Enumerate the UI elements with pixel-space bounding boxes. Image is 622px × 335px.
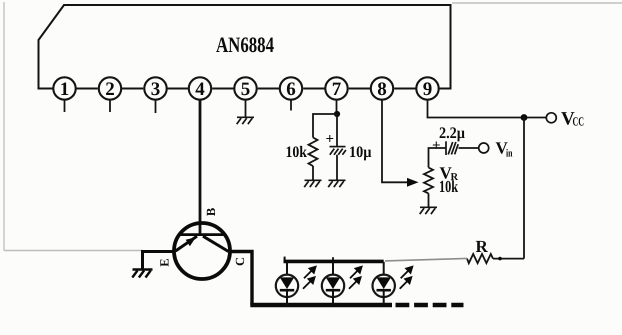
ground below VR: [420, 207, 437, 214]
ground below C1: [328, 180, 345, 187]
svg-text:7: 7: [332, 79, 342, 100]
capacitor C1 10u polarized plate: [330, 147, 346, 155]
VR wiper arrowhead: [407, 178, 419, 187]
faint scan artifact horizontal line left: [4, 250, 143, 252]
faint scan artifact vertical line left: [3, 2, 5, 251]
wire tick above rail LED2: [332, 257, 334, 261]
svg-text:CC: CC: [573, 115, 585, 129]
wire Vcc rail down right side: [523, 118, 525, 259]
svg-text:AN6884: AN6884: [216, 32, 274, 57]
svg-text:2.2µ: 2.2µ: [439, 125, 465, 142]
wire dashed continuation: [396, 303, 464, 308]
pin 6: [280, 77, 302, 110]
svg-text:6: 6: [286, 79, 296, 100]
svg-text:5: 5: [241, 79, 251, 100]
wire pin 9 to Vcc rail: [428, 100, 547, 118]
pin 5: [234, 77, 256, 116]
wire right rail to resistor R: [493, 258, 524, 260]
svg-text:10k: 10k: [439, 177, 458, 196]
node junction at pin 7: [334, 111, 340, 117]
wire VR to ground: [428, 193, 430, 206]
node small blob right of R: [498, 257, 502, 261]
wire base pin 4 to transistor: [199, 100, 202, 236]
arrows D2: [349, 267, 362, 289]
faint scan artifact line top right: [452, 2, 622, 4]
svg-text:2: 2: [105, 79, 115, 100]
ground at emitter: [132, 270, 152, 278]
svg-text:B: B: [204, 208, 218, 216]
node junction Vcc rail: [521, 114, 528, 121]
pin 2: [99, 77, 121, 112]
LED D3: [373, 262, 395, 306]
svg-text:1: 1: [60, 79, 70, 100]
arrows D3: [400, 267, 413, 289]
wire C1 to ground: [336, 155, 338, 180]
svg-text:R: R: [476, 237, 489, 256]
ground below 10k: [304, 180, 321, 187]
terminal Vin: [479, 143, 489, 153]
wire junction to 10k branch: [313, 114, 337, 138]
pin 4: [189, 77, 211, 100]
wire 10k to ground: [312, 166, 314, 180]
wire pin 7 junction down to capacitor C1: [336, 114, 338, 147]
capacitor C2 2.2u plate: [446, 141, 458, 155]
terminal Vcc: [546, 113, 556, 123]
wire emitter to ground: [143, 252, 176, 269]
wire thin gray from R to LED rail: [385, 258, 467, 261]
svg-text:E: E: [157, 258, 171, 266]
wire bottom LED rail: [250, 303, 392, 307]
resistor R: [467, 254, 493, 263]
resistor 10k (pin 7): [309, 138, 318, 167]
svg-text:10µ: 10µ: [349, 144, 372, 161]
LED D2: [322, 262, 344, 306]
wire pin interconnects along pin row: [76, 88, 417, 90]
svg-text:+: +: [326, 132, 335, 148]
LED D1: [276, 262, 298, 306]
wire collector to LED rail: [229, 252, 253, 306]
svg-text:3: 3: [151, 79, 161, 100]
svg-text:10k: 10k: [286, 144, 308, 161]
pin 9: [416, 77, 438, 100]
wire pin 8 to VR wiper: [382, 100, 408, 183]
wire top LED rail: [284, 260, 384, 264]
svg-text:8: 8: [377, 79, 387, 100]
wire C2 to Vin terminal: [459, 147, 479, 149]
ground at pin 5: [237, 117, 254, 124]
arrows D1: [303, 267, 316, 289]
IC U1 AN6884 outline: [39, 5, 451, 89]
wire VR top to capacitor C2: [429, 148, 447, 168]
transistor Q1: [174, 223, 230, 279]
svg-text:in: in: [506, 148, 513, 160]
pin 8: [371, 77, 393, 100]
potentiometer VR 10k: [424, 168, 433, 194]
pin 1: [53, 77, 75, 112]
svg-text:4: 4: [195, 79, 205, 100]
svg-text:9: 9: [423, 79, 433, 100]
wire tick above rail LED1: [284, 257, 286, 262]
pin 3: [144, 77, 166, 113]
pin 7: [325, 77, 347, 114]
svg-text:C: C: [233, 257, 247, 266]
